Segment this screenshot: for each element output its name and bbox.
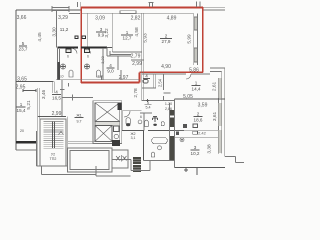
wire: closet stub wall <box>53 82 55 94</box>
svg-text:5: 5 <box>22 41 25 46</box>
wire: outer line right of vestibule <box>96 166 131 176</box>
svg-text:3,0: 3,0 <box>59 75 64 79</box>
fixture in room 4 <box>143 80 148 84</box>
svg-text:16,5: 16,5 <box>52 96 61 101</box>
svg-text:2,79: 2,79 <box>131 54 141 60</box>
wire: hall 5.4 top wall <box>142 100 175 102</box>
balance symbol <box>153 117 158 123</box>
svg-text:3,66: 3,66 <box>17 15 27 21</box>
svg-text:3,22: 3,22 <box>104 28 110 38</box>
basin circle bath B <box>84 64 89 69</box>
dim line with ticks <box>23 89 36 92</box>
svg-text:3,38: 3,38 <box>207 144 213 154</box>
vestibule outer rect <box>68 148 113 172</box>
wire: right outer wall line <box>224 68 226 157</box>
svg-text:3,59: 3,59 <box>198 103 208 109</box>
wire: wall room15.4 right double <box>38 88 40 166</box>
wire: wall 11.2-room/bath double <box>58 48 60 80</box>
wire: wall between 3.66 and 3.29 rooms <box>56 10 58 48</box>
svg-text:2,61: 2,61 <box>211 82 217 92</box>
window right (room 10.2) <box>219 130 222 153</box>
room 4 small: right wall <box>154 74 156 89</box>
tick marks above top wall near red corner <box>78 2 81 7</box>
svg-text:2,99: 2,99 <box>132 61 142 67</box>
bathroom apt3: left wall <box>143 131 145 161</box>
cross tick <box>146 99 149 102</box>
door symbol in side box <box>116 155 127 162</box>
door leaf tick near bath <box>68 83 70 87</box>
bathtub <box>152 138 167 144</box>
wire: left outer wall <box>15 10 17 150</box>
entrance ticks below <box>184 168 197 176</box>
wire: wall right of kitchen4 <box>117 56 119 70</box>
meter icon 1 <box>183 124 187 128</box>
svg-text:5,86: 5,86 <box>189 68 199 74</box>
svg-text:3,1: 3,1 <box>131 136 136 140</box>
wire: wall room4/room14.4 <box>164 74 171 101</box>
svg-text:2: 2 <box>197 112 200 117</box>
kitchen top step corner <box>107 48 131 57</box>
elevator divider band <box>95 122 120 126</box>
vent square right of red wall <box>82 36 85 39</box>
wire: outer top wall left part <box>16 9 81 11</box>
room label 5/23.7 <box>19 41 28 52</box>
toilet apt3 <box>151 152 154 157</box>
svg-text:2: 2 <box>165 34 168 39</box>
svg-text:18,6: 18,6 <box>194 118 203 123</box>
dark pier bottom of elevator <box>112 140 120 146</box>
window top-left <box>52 6 69 12</box>
wire: kitchen bottom wall <box>175 167 226 169</box>
wire: bath block bottom wall <box>56 79 140 81</box>
wire: room 14.4 bottom wall <box>175 98 225 100</box>
window right (room 14.4) <box>219 78 222 98</box>
room label 4 <box>143 74 150 79</box>
svg-text:3: 3 <box>100 27 103 32</box>
svg-text:12,7: 12,7 <box>123 36 132 41</box>
svg-text:4: 4 <box>55 90 58 95</box>
wire: left bottom wall <box>16 149 36 151</box>
room label 1/15.4 <box>17 102 26 113</box>
svg-text:9,9: 9,9 <box>98 33 105 38</box>
svg-text:6: 6 <box>87 55 89 59</box>
elevator X upper <box>95 103 120 122</box>
stairwell outer box <box>40 119 66 166</box>
wire: right wall corner step <box>210 68 225 72</box>
svg-text:1: 1 <box>195 81 198 86</box>
svg-text:3,29: 3,29 <box>58 15 68 21</box>
wire: neighbour wall going right, double <box>204 8 226 10</box>
svg-text:23,7: 23,7 <box>19 47 28 52</box>
svg-text:2,54: 2,54 <box>158 78 163 87</box>
dark glyph in meter band <box>176 131 179 135</box>
stairwell right wall double <box>67 117 69 149</box>
wire: wall between bath B and kitchen4 <box>102 48 104 80</box>
svg-text:1: 1 <box>126 30 129 35</box>
vent blocks in corridor wall <box>133 157 141 164</box>
wire: corridor bottom wall <box>144 160 175 162</box>
room label 1/14.4 <box>192 81 201 92</box>
svg-text:1-20: 1-20 <box>165 102 172 106</box>
svg-text:5,4: 5,4 <box>146 106 151 110</box>
wire: wall between room 3 and room 1 <box>111 13 113 52</box>
svg-text:5,21: 5,21 <box>26 100 32 110</box>
kitchen bottom double wall <box>68 141 96 143</box>
loggia glazing strip <box>194 14 198 66</box>
vent column dark upper <box>170 110 174 116</box>
svg-text:6: 6 <box>67 55 69 59</box>
duct dark block left of bath A <box>58 62 61 80</box>
washer box bath B <box>85 49 90 53</box>
meter icon row: box <box>193 131 198 134</box>
wire: room 3 bottom wall <box>88 47 112 49</box>
svg-text:3,09: 3,09 <box>95 16 105 22</box>
window under top wall (room 1) <box>120 11 136 14</box>
wire: bottom right corner step <box>225 157 244 163</box>
room label 3/9.9 <box>96 27 106 38</box>
svg-text:4,90: 4,90 <box>161 64 171 70</box>
garbage chute circle <box>114 134 118 138</box>
svg-text:ТП2: ТП2 <box>50 157 57 161</box>
svg-text:27,9: 27,9 <box>162 39 171 44</box>
toilet wc6 <box>126 118 130 124</box>
cistern fixture <box>161 122 164 126</box>
svg-text:5,99: 5,99 <box>187 34 193 44</box>
svg-text:5,93: 5,93 <box>143 33 149 43</box>
wire: wall between room1 and room2, double <box>142 13 144 101</box>
vent column dark lower <box>170 136 174 160</box>
room 4 small: bottom wall <box>142 87 156 89</box>
door arc bath B <box>86 49 91 54</box>
svg-text:2,82: 2,82 <box>131 16 141 22</box>
svg-text:15,4: 15,4 <box>17 108 26 113</box>
svg-text:3,30: 3,30 <box>52 27 58 37</box>
wire: wc wall y113 <box>140 112 152 114</box>
room label 3/10.2 <box>191 145 200 156</box>
wire: left porch vertical <box>36 131 38 166</box>
basin circle bath A <box>60 64 65 69</box>
toilet bathroom arch <box>145 120 149 126</box>
svg-text:3,23: 3,23 <box>101 56 105 63</box>
stove symbol kitchen <box>180 138 184 142</box>
stair direction arrow <box>59 132 64 135</box>
garbage chute box <box>114 126 120 132</box>
svg-text:3: 3 <box>194 145 197 150</box>
vestibule side box <box>112 150 128 168</box>
door tick on wall x62 <box>60 89 65 91</box>
room label 2/27.9 <box>160 34 172 45</box>
elevator shaft outer double wall <box>93 101 122 144</box>
svg-text:3,61: 3,61 <box>212 112 218 122</box>
svg-text:У2: У2 <box>51 153 55 157</box>
dark oval fixture <box>153 124 157 126</box>
toilet bath B <box>97 70 101 77</box>
svg-text:3,46: 3,46 <box>41 90 47 100</box>
window right (room 18.6) <box>219 103 222 126</box>
wire: dim line under 2.79 <box>131 59 144 61</box>
svg-text:4,89: 4,89 <box>167 16 177 22</box>
toilet bath A <box>69 70 73 77</box>
svg-text:14,4: 14,4 <box>192 87 201 92</box>
room label 4/9.0 <box>107 63 115 74</box>
wire: porch step <box>42 166 97 175</box>
wire: kitchen 10.2 top wall <box>175 137 219 139</box>
wire: corridor wall below room4 <box>122 110 142 112</box>
stair label U2/TP2 <box>50 153 57 162</box>
washer box bath A <box>66 49 71 53</box>
wire: right wall inner lines <box>218 72 221 154</box>
svg-text:4,58: 4,58 <box>134 27 140 37</box>
svg-text:11,2: 11,2 <box>60 27 69 32</box>
wire: room 1 bottom wall <box>112 51 141 53</box>
svg-text:6: 6 <box>140 115 142 119</box>
meter icon 2 <box>193 124 198 128</box>
svg-text:1: 1 <box>20 102 23 107</box>
dark pier right of elevator <box>118 103 122 111</box>
room label 2/18.6 <box>194 112 203 123</box>
wire: wall below red bottom right (room 14.4 top) <box>142 73 210 75</box>
svg-text:20: 20 <box>20 129 24 133</box>
svg-text:Ж1: Ж1 <box>76 114 81 118</box>
wire: entrance corridor lines <box>112 160 150 171</box>
room label 1/12.7 <box>121 30 133 41</box>
svg-text:5: 5 <box>147 101 149 105</box>
svg-text:2,95: 2,95 <box>16 85 26 91</box>
wire: tick at 101.5 <box>101 76 103 80</box>
tick marks above top wall (right) <box>197 2 201 8</box>
stairwell top wall <box>38 116 66 118</box>
svg-text:9,0: 9,0 <box>107 69 114 74</box>
elevator X lower <box>95 126 112 142</box>
wire: wall stub x121 <box>120 70 122 80</box>
room label 4/16.5 <box>52 90 61 101</box>
door arc bath A <box>73 49 78 54</box>
room label 5/5.4 <box>145 101 152 110</box>
wire: hall left wall <box>61 80 63 117</box>
wire: hall/kitchen top wall <box>62 97 93 99</box>
wire: room 18.6 bottom thin line <box>175 129 219 131</box>
balcony slab dark <box>16 141 36 144</box>
vestibule inner rect <box>70 151 109 170</box>
vent square left of red wall <box>75 36 78 39</box>
vent column wall double <box>170 99 175 168</box>
bathroom block top dark wall <box>58 47 108 49</box>
red apartment boundary <box>81 7 203 83</box>
wire: corridor left vertical <box>121 111 123 131</box>
wire: porch bottom line1 <box>37 165 68 167</box>
washbasin circle <box>158 146 162 150</box>
door arc room 14.4 <box>186 74 191 79</box>
door arc hall <box>124 111 130 117</box>
wire: inner face of top wall (right of red corner) <box>82 12 194 14</box>
wire: wall left of room 3 <box>87 13 89 47</box>
door tick on hall wall <box>72 95 74 101</box>
wire: apartment division wall y81.5 left <box>16 81 54 83</box>
toilet wc6 seat dark <box>126 123 130 126</box>
tick marks above top wall (center) <box>149 2 154 7</box>
stair center rail <box>53 122 55 149</box>
room label 6/3.1 <box>130 132 135 140</box>
svg-text:9,7: 9,7 <box>77 120 82 124</box>
sink circle wc6 <box>138 120 142 124</box>
svg-text:3,65: 3,65 <box>17 77 27 83</box>
wire: corridor bottom wall y130.6 <box>122 130 184 132</box>
stair treads <box>44 122 64 149</box>
svg-text:4: 4 <box>109 63 112 68</box>
svg-text:4,45: 4,45 <box>37 32 43 42</box>
svg-text:2,42: 2,42 <box>198 131 207 136</box>
room label Zh1/9.7 <box>75 114 84 124</box>
svg-text:2,97: 2,97 <box>119 75 129 81</box>
svg-text:2,78: 2,78 <box>133 88 139 98</box>
wire: wc wall x144 <box>143 113 145 131</box>
svg-text:10,2: 10,2 <box>191 151 200 156</box>
wire: inner face of wall left of red corner <box>69 13 80 15</box>
